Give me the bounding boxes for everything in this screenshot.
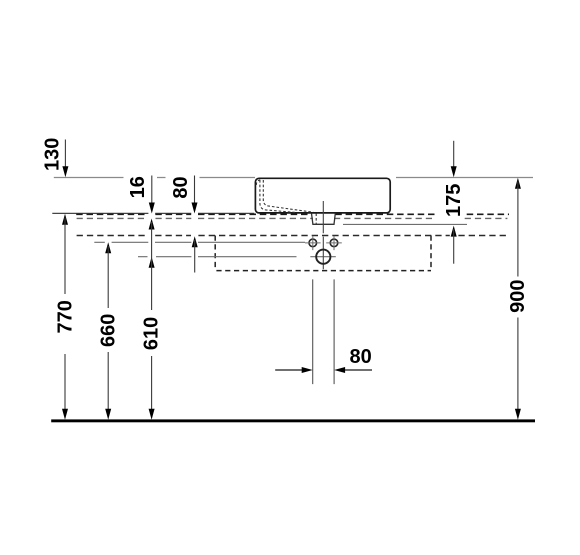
drain hidden dashed line	[315, 213, 317, 224]
drain outlet trapezoid	[312, 213, 336, 224]
svg-text:80: 80	[349, 346, 371, 368]
610 extent line	[138, 256, 336, 258]
washbasin hidden inner wall dashed	[256, 180, 313, 213]
dimension 900	[515, 178, 521, 189]
dimension 610 with 16-lower arrow	[149, 219, 155, 230]
svg-text:610: 610	[140, 317, 162, 350]
svg-text:175: 175	[443, 184, 465, 217]
faucet hole left crosshair	[305, 236, 321, 250]
175 lower extent line	[343, 223, 467, 225]
svg-text:900: 900	[507, 280, 529, 313]
drain hole circle	[316, 250, 330, 264]
console top solid line (770 level)	[52, 212, 254, 214]
dimension 80 upper arrow	[192, 203, 198, 214]
660 extent line	[94, 241, 305, 243]
center line of basin	[322, 201, 324, 269]
dashed furniture rectangle	[215, 236, 431, 271]
faucet hole right circle	[330, 239, 338, 247]
dimension 130 arrow	[62, 166, 68, 177]
dimension 175	[453, 141, 455, 173]
svg-text:16: 16	[127, 176, 149, 198]
console board dashed line lower	[77, 217, 508, 219]
bottom dimension 80 right arrow	[338, 369, 372, 371]
dimension 770	[62, 214, 68, 225]
bottom dimension 80 extension lines	[313, 279, 334, 384]
dimension 80 lower arrow with tail	[192, 236, 198, 247]
washbasin outline	[255, 178, 390, 213]
dimension 80 upper line	[194, 176, 196, 210]
top reference line (rim level)	[54, 177, 533, 179]
faucet hole left circle	[309, 239, 317, 247]
dimension 660	[105, 242, 111, 253]
floor line	[51, 419, 535, 422]
dimension 16 arrow	[149, 203, 155, 214]
lower dashed line (80 below console)	[77, 235, 508, 237]
faucet hole right crosshair	[326, 236, 342, 250]
svg-text:770: 770	[55, 300, 77, 333]
svg-text:80: 80	[170, 176, 192, 198]
svg-text:130: 130	[41, 138, 63, 171]
dimension 130 line	[64, 140, 66, 174]
dimension 16 line	[151, 176, 153, 210]
console board dashed line upper	[76, 213, 509, 215]
svg-text:660: 660	[98, 314, 120, 347]
bottom dimension 80 left arrow	[275, 369, 309, 371]
